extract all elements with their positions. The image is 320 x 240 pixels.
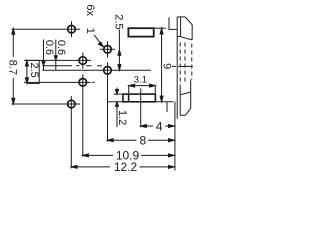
- leader to hole B: [94, 35, 103, 47]
- dim 8.7: [12, 28, 15, 104]
- hole C circle: [79, 57, 87, 65]
- side view front face: [176, 17, 178, 119]
- svg-text:1.2: 1.2: [116, 110, 128, 125]
- svg-text:3.1: 3.1: [134, 75, 147, 86]
- hole F crosshair: [11, 96, 80, 168]
- side view foot bottom slant: [185, 108, 191, 115]
- svg-text:8.7: 8.7: [7, 60, 19, 75]
- side view foot left: [179, 85, 181, 116]
- dim 10.9: [83, 154, 174, 157]
- hole E circle: [79, 79, 87, 87]
- hole B circle: [104, 46, 112, 54]
- hole D crosshair: [42, 62, 151, 141]
- side view centerline: [172, 65, 176, 67]
- side view foot right: [190, 92, 192, 108]
- side view inner chamfer: [181, 37, 193, 40]
- bottom dims extension line: [174, 102, 176, 171]
- dim 12.2: [71, 165, 174, 168]
- side view top edge: [177, 16, 185, 18]
- side view inner ledge: [177, 36, 180, 38]
- hole A circle: [68, 25, 76, 33]
- hole F circle: [68, 100, 76, 108]
- svg-text:4: 4: [156, 119, 163, 133]
- dim 4: [141, 125, 175, 128]
- dim 9: [160, 28, 163, 102]
- svg-text:6x: 6x: [84, 4, 96, 16]
- side view shield tab bottom: [166, 102, 168, 112]
- svg-text:12.2: 12.2: [114, 160, 138, 174]
- hole D circle: [104, 67, 112, 75]
- svg-text:9: 9: [160, 63, 172, 69]
- side view chamfer: [185, 17, 192, 25]
- side view foot slant top: [180, 92, 191, 95]
- dim 1.2: [116, 88, 119, 128]
- side view hidden line left: [179, 43, 181, 84]
- svg-text:8: 8: [139, 133, 146, 147]
- dim 3.1: [129, 84, 156, 94]
- side view hidden line right: [184, 43, 186, 84]
- hole E crosshair: [24, 74, 95, 157]
- hole B crosshair: [100, 41, 115, 57]
- svg-text:2.5: 2.5: [28, 62, 40, 77]
- svg-text:1: 1: [84, 28, 96, 34]
- dim 8: [108, 139, 175, 142]
- top pad rectangle: [128, 28, 165, 36]
- centerline horizontal: [42, 65, 102, 67]
- hole C crosshair: [24, 53, 91, 69]
- side view foot bottom: [180, 114, 185, 116]
- side view right edge: [191, 25, 193, 40]
- hole A crosshair: [11, 21, 80, 37]
- dim 0.6 second: [54, 40, 57, 71]
- svg-text:2.5: 2.5: [113, 14, 125, 29]
- dim 2.5 left boxed: [25, 60, 39, 83]
- svg-text:0.6: 0.6: [55, 40, 67, 55]
- side view second wall: [180, 17, 182, 37]
- side view shield tab top: [169, 17, 177, 29]
- dim 2.5 top: [118, 29, 121, 70]
- dim 0.6 first: [42, 40, 45, 71]
- svg-text:0.6: 0.6: [43, 40, 55, 55]
- middle pad rectangle: [107, 89, 173, 128]
